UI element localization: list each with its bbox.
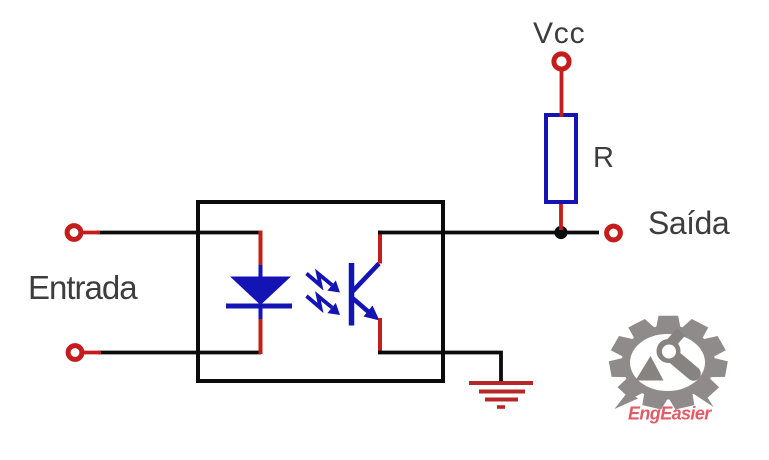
EngEasier logo watermark: [609, 316, 728, 424]
output terminal: [607, 226, 621, 240]
svg-text:EngEasier: EngEasier: [628, 404, 712, 424]
svg-text:Vcc: Vcc: [533, 17, 585, 50]
wire input upper (black): [97, 231, 261, 235]
wire emitter (red): [378, 318, 382, 354]
wire emitter to ground (black): [378, 353, 501, 382]
wire input lower (black): [98, 351, 261, 355]
wire resistor bottom (red): [559, 200, 563, 230]
svg-text:R: R: [593, 142, 614, 174]
wire Vcc (red): [560, 69, 564, 117]
Vcc terminal: [554, 54, 569, 69]
junction node: [554, 226, 567, 239]
wire LED anode (red): [259, 231, 263, 268]
optocoupler package outline: [198, 202, 443, 381]
phototransistor: [352, 263, 380, 326]
wire input lower stub (red): [84, 351, 101, 355]
input terminal lower: [68, 346, 82, 360]
wire input upper stub (red): [83, 231, 100, 235]
input terminal upper: [67, 226, 81, 240]
resistor R: [546, 115, 576, 202]
wire output (black): [378, 231, 599, 235]
LED emitter diode: [226, 265, 292, 321]
ground: [469, 383, 533, 407]
wire LED cathode (red): [259, 319, 263, 354]
wire collector (red): [378, 231, 382, 264]
svg-text:Saída: Saída: [648, 205, 730, 241]
light coupling arrows: [307, 274, 341, 316]
svg-text:Entrada: Entrada: [28, 269, 138, 306]
